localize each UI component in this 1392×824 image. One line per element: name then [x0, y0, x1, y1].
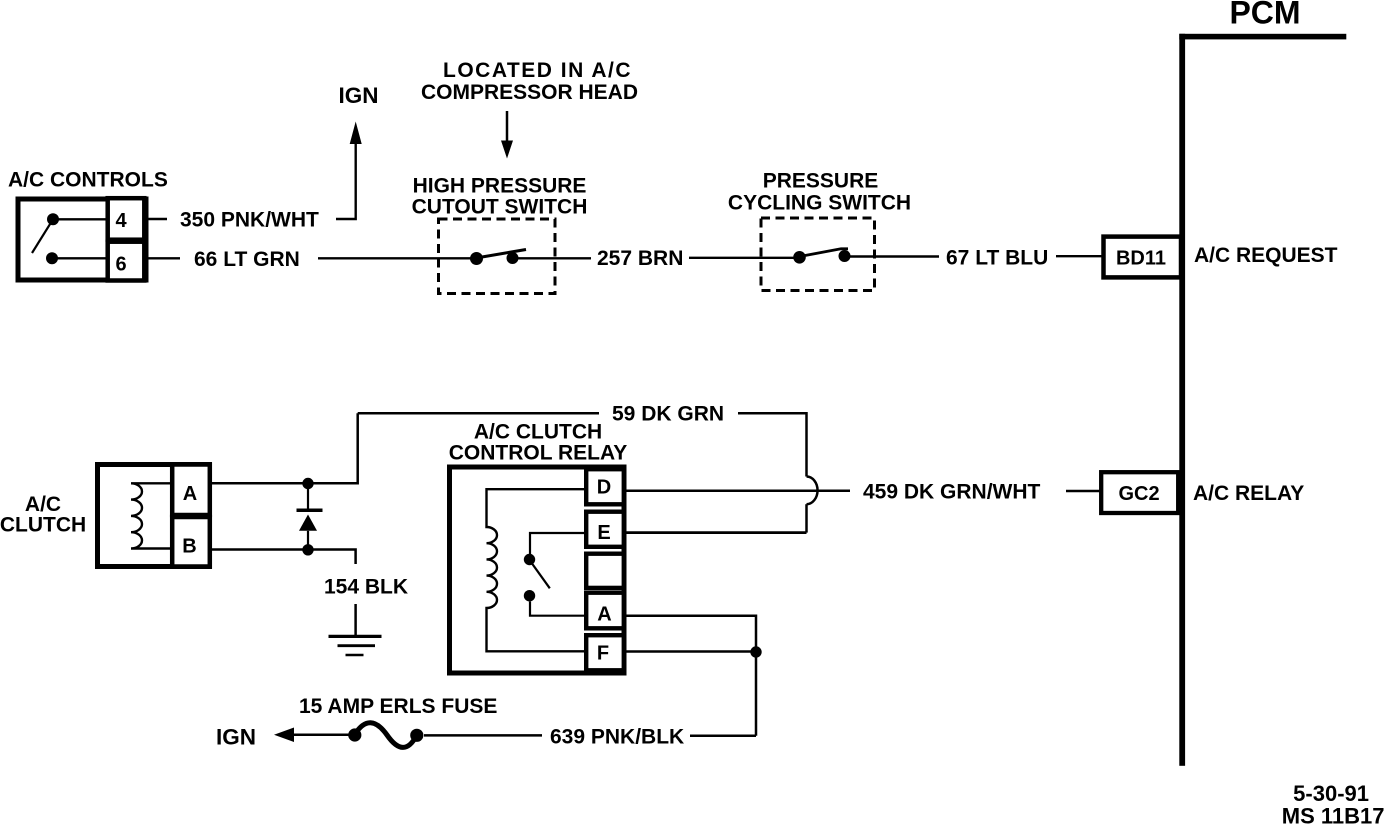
wire 59 DK GRN right segment [738, 413, 807, 476]
wire 66 LT GRN [318, 257, 471, 259]
svg-text:66 LT GRN: 66 LT GRN [194, 248, 300, 271]
svg-text:A/C REQUEST: A/C REQUEST [1194, 244, 1338, 267]
svg-text:PCM: PCM [1229, 0, 1300, 31]
PCM module boundary line [1179, 34, 1346, 766]
svg-text:BD11: BD11 [1116, 248, 1166, 270]
wire clutch A to 59 DK GRN riser [209, 413, 358, 483]
svg-text:A: A [183, 483, 197, 505]
wire 66 LT GRN stub [146, 257, 180, 259]
wire 639 riser [755, 652, 758, 736]
wire crossover hop [807, 477, 818, 505]
fuse 15A ERLS [348, 723, 423, 748]
wire relay A internal [530, 602, 586, 616]
clutch terminal B box [172, 517, 210, 567]
wire contact upper to pin 4 [53, 218, 107, 220]
wire relay E internal [530, 533, 586, 554]
svg-text:59 DK GRN: 59 DK GRN [612, 403, 724, 426]
svg-text:MS 11B17: MS 11B17 [1282, 804, 1385, 824]
relay switch moving contact [524, 590, 535, 601]
clutch coil [131, 483, 172, 548]
svg-text:E: E [597, 522, 610, 544]
relay terminal D box [586, 469, 624, 504]
wire relay D external 459 [627, 489, 851, 492]
svg-text:639 PNK/BLK: 639 PNK/BLK [550, 725, 684, 748]
note pointer arrow [501, 111, 513, 159]
svg-text:F: F [597, 643, 609, 665]
terminal 6 box [108, 242, 145, 281]
wire 639 PNK/BLK right segment [690, 734, 756, 737]
terminal 4 box [108, 198, 145, 240]
IGN arrowhead up [350, 122, 362, 145]
high pressure switch arm [482, 250, 526, 258]
high pressure cutout switch enclosure [439, 219, 556, 294]
wire clutch B to 154 BLK [209, 550, 356, 565]
wire to 257 BRN [518, 257, 591, 259]
svg-text:HIGH PRESSURE: HIGH PRESSURE [413, 175, 587, 198]
svg-text:COMPRESSOR HEAD: COMPRESSOR HEAD [421, 81, 638, 104]
svg-text:6: 6 [115, 254, 126, 276]
wire 257 BRN to cycling switch [689, 257, 794, 259]
svg-text:A/C RELAY: A/C RELAY [1193, 482, 1304, 505]
svg-text:PRESSURE: PRESSURE [763, 170, 879, 193]
A/C clutch body box [98, 465, 210, 567]
svg-text:IGN: IGN [338, 83, 378, 108]
relay terminal E box [586, 512, 624, 547]
clutch terminal A box [172, 465, 210, 516]
svg-text:CYCLING SWITCH: CYCLING SWITCH [728, 192, 911, 215]
svg-text:4: 4 [115, 210, 127, 232]
wire fuse to 639 [424, 734, 542, 737]
svg-text:CLUTCH: CLUTCH [0, 514, 86, 537]
svg-text:LOCATED IN A/C: LOCATED IN A/C [443, 59, 632, 82]
svg-text:A/C CLUTCH: A/C CLUTCH [474, 421, 602, 444]
wire 154 BLK to ground [354, 604, 357, 636]
junction dot clutch A [302, 478, 313, 489]
relay switch arm [532, 564, 550, 589]
wire 350 PNK/WHT stub [146, 218, 167, 220]
svg-text:B: B [182, 536, 196, 558]
svg-text:459 DK GRN/WHT: 459 DK GRN/WHT [863, 481, 1041, 504]
junction dot clutch B [302, 544, 313, 555]
wire relay A external [627, 616, 757, 652]
svg-text:5-30-91: 5-30-91 [1293, 781, 1369, 806]
IGN arrowhead left [274, 728, 294, 743]
svg-text:IGN: IGN [216, 725, 256, 750]
cycling switch arm [805, 249, 848, 256]
svg-text:A/C CONTROLS: A/C CONTROLS [8, 169, 168, 192]
svg-text:CUTOUT SWITCH: CUTOUT SWITCH [412, 196, 588, 219]
relay switch fixed contact [524, 554, 535, 565]
svg-text:257 BRN: 257 BRN [597, 247, 683, 270]
wire relay F external [627, 650, 757, 653]
wire 67 LT BLU [850, 255, 939, 257]
wire contact lower to pin 6 [52, 257, 107, 259]
cycling switch contact left [793, 251, 806, 264]
wire 350 PNK/WHT to IGN riser [336, 140, 356, 219]
svg-text:D: D [597, 477, 611, 499]
pressure cycling switch enclosure [761, 218, 875, 291]
controls switch contact lower [46, 252, 58, 264]
svg-text:A: A [597, 604, 611, 626]
A/C controls switch box [18, 199, 146, 280]
svg-text:154 BLK: 154 BLK [324, 576, 408, 599]
relay spare terminal box [586, 554, 624, 588]
svg-text:350 PNK/WHT: 350 PNK/WHT [180, 209, 319, 232]
cycling switch contact right [839, 250, 851, 262]
svg-text:GC2: GC2 [1118, 483, 1159, 505]
relay terminal F box [586, 635, 624, 670]
diode clutch suppression [297, 489, 323, 545]
wire 59 DK GRN left segment [358, 412, 599, 415]
svg-text:67 LT BLU: 67 LT BLU [946, 247, 1048, 270]
wire relay E external [627, 531, 807, 534]
controls switch contact upper [47, 213, 59, 225]
relay terminal A box [586, 593, 624, 629]
wire hop to relay E [805, 504, 808, 532]
svg-text:CONTROL RELAY: CONTROL RELAY [449, 442, 628, 465]
wire 459 to GC2 [1066, 490, 1102, 493]
svg-text:15 AMP ERLS FUSE: 15 AMP ERLS FUSE [299, 695, 497, 718]
connector GC2 [1101, 472, 1178, 513]
connector BD11 [1104, 237, 1182, 278]
relay body box [450, 467, 625, 673]
junction dot F 639 [750, 646, 761, 657]
controls switch arm [32, 219, 53, 253]
high pressure switch contact right [507, 252, 519, 264]
ground symbol [329, 636, 382, 655]
relay coil [487, 489, 587, 651]
wire 67 LT BLU to BD11 [1056, 255, 1103, 257]
wire IGN to fuse [291, 733, 349, 736]
high pressure switch contact left [470, 252, 483, 265]
